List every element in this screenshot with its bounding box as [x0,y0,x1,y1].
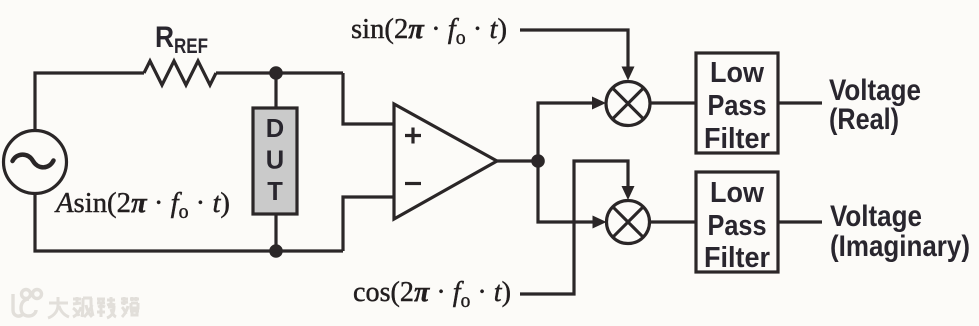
svg-text:Pass: Pass [708,210,767,242]
svg-text:U: U [266,147,284,175]
svg-text:(Imaginary): (Imaginary) [830,230,970,263]
wire mixer M2 to LPF2 [650,220,697,223]
svg-text:(Real): (Real) [829,103,899,136]
wire sin to mixer M1 [520,30,635,81]
LPF1 box Low Pass Filter [696,53,778,155]
wire source bottom rail [35,194,343,252]
wire node A to op-amp plus input [343,73,394,124]
mixer M1 [606,82,650,126]
wire DUT bottom to node B [274,215,277,251]
wire node A down to DUT [274,73,277,108]
svg-text:cos(2π · fo · t): cos(2π · fo · t) [353,276,511,312]
svg-text:D: D [266,115,284,143]
svg-text:Pass: Pass [708,90,767,122]
svg-text:REF: REF [174,35,208,58]
LPF2 box Low Pass Filter [696,172,778,274]
wire LPF1 to output [778,101,822,104]
label sin(2pi fo t) [351,13,507,49]
svg-text:Voltage: Voltage [830,200,922,233]
node B junction dot [269,244,283,258]
svg-text:T: T [267,178,283,206]
mixer M2 [607,201,650,244]
AC source V1 [4,131,67,194]
svg-text:R: R [155,21,174,54]
label Asin(2pi fo t) [54,187,230,223]
wire resistor to op-amp corner [216,71,343,74]
label Voltage (Real) [829,74,921,136]
wire node C down to mixer M2 [538,161,607,229]
op-amp U1 [394,104,497,219]
wire op-amp output to node C [497,159,538,162]
wire LPF2 to output [778,220,822,223]
wire mixer M1 to LPF1 [650,101,696,104]
label Voltage (Imaginary) [830,200,970,263]
svg-text:sin(2π · fo · t): sin(2π · fo · t) [351,13,507,49]
wire cos to mixer M2 [520,161,635,294]
svg-text:Low: Low [710,177,764,209]
wire node C up to mixer M1 [538,97,606,162]
DUT box [253,108,297,214]
wire source top to resistor [35,73,144,131]
svg-text:Asin(2π · fo · t): Asin(2π · fo · t) [54,187,230,223]
svg-text:Filter: Filter [704,242,770,274]
resistor RREF [144,61,216,85]
wire node B to op-amp minus input [343,197,394,251]
node C junction dot [531,154,545,168]
node A junction dot [269,66,283,80]
label cos(2pi fo t) [353,276,511,312]
label RREF [155,21,208,58]
watermark logo [13,290,42,317]
svg-text:Filter: Filter [704,123,770,155]
watermark text [48,297,139,318]
svg-text:Low: Low [710,57,764,89]
